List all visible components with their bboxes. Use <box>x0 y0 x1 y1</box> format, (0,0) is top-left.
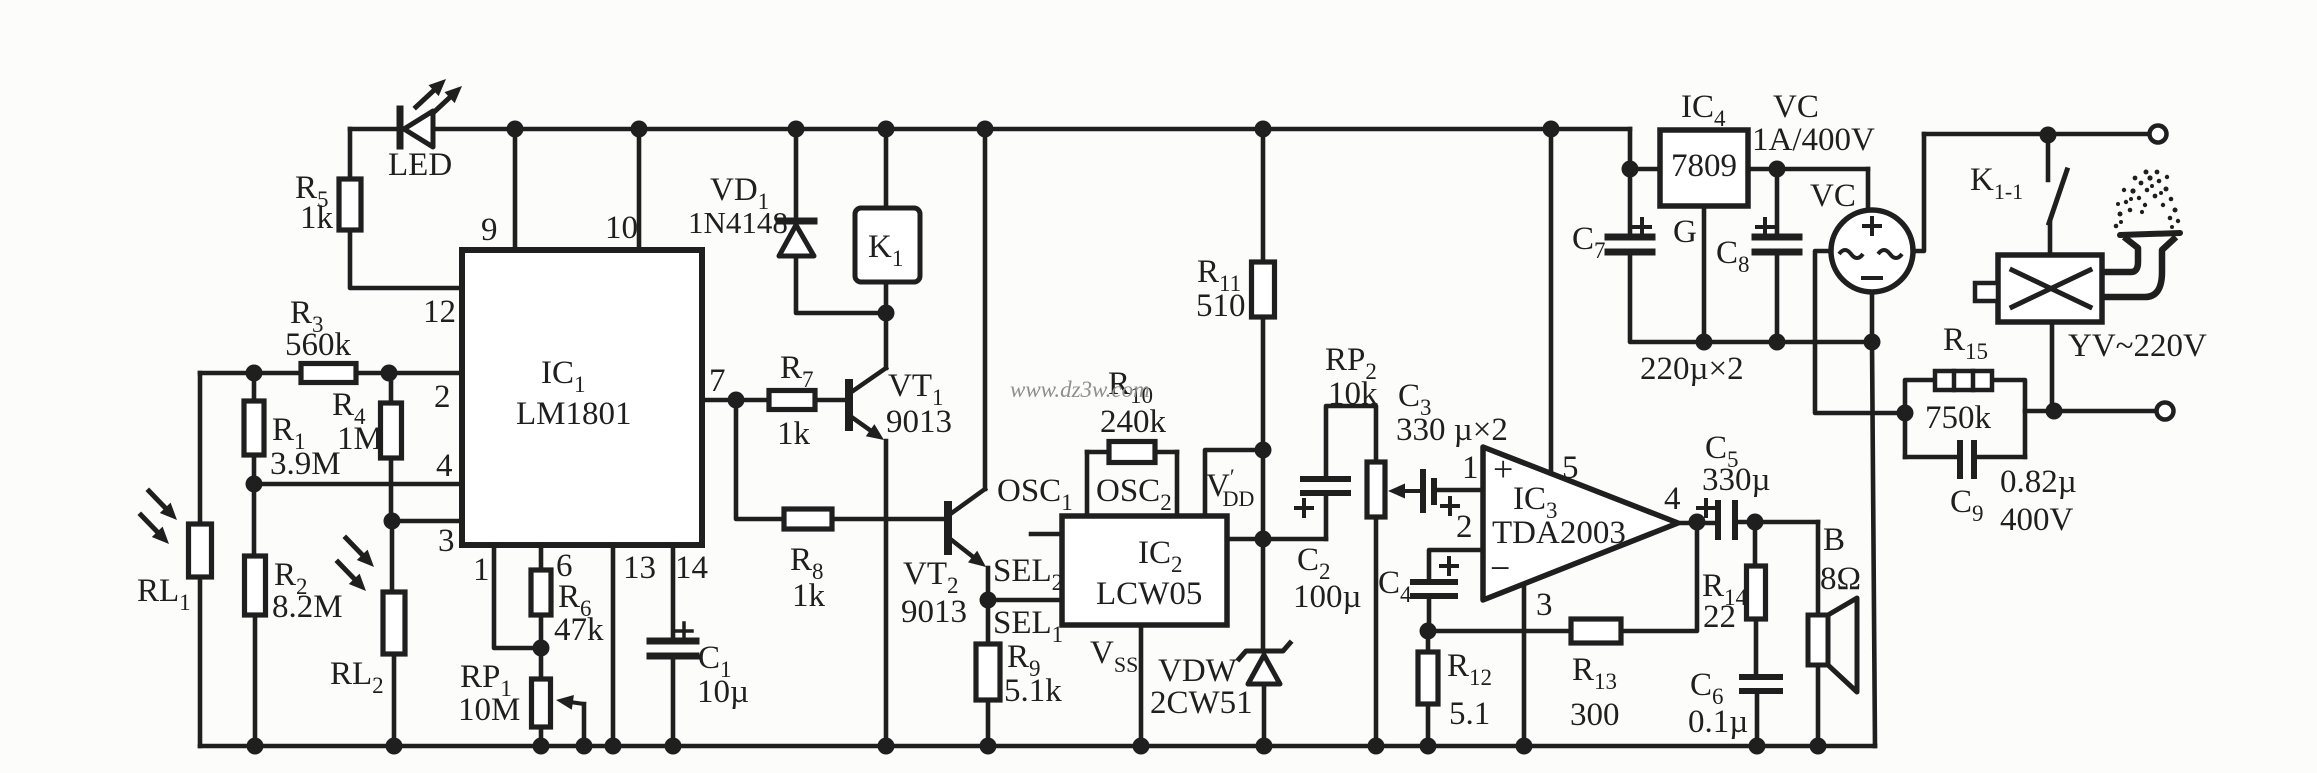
label B <box>1823 522 1845 558</box>
label R11 value 510 <box>1196 288 1246 324</box>
label SEL1 <box>993 605 1063 647</box>
svg-text:9013: 9013 <box>886 404 952 440</box>
terminal upper <box>2150 126 2167 143</box>
wire VC left <box>1815 251 1905 413</box>
wire C7 top <box>1628 169 1633 237</box>
svg-text:1A/400V: 1A/400V <box>1752 122 1875 158</box>
svg-text:LM1801: LM1801 <box>516 396 632 432</box>
node dot output <box>1689 514 1706 531</box>
wire R12 stubs <box>1426 631 1431 746</box>
label pin4 <box>1664 481 1681 517</box>
wire pin4 row <box>254 482 462 487</box>
wire VD1 to K1 node <box>796 256 886 313</box>
label RP1 value 10M <box>458 692 520 728</box>
label R8 value 1k <box>792 578 826 614</box>
wire rail to 7809 <box>1630 129 1660 169</box>
wire VC bottom <box>1870 292 1875 342</box>
node dot K1-1 tap <box>2040 127 2057 144</box>
svg-text:14: 14 <box>675 550 708 586</box>
wire pin13 <box>611 545 616 746</box>
resistor R14 <box>1747 566 1766 619</box>
op-amp IC3 triangle <box>1483 447 1678 600</box>
node dot R11 rail <box>1255 121 1272 138</box>
label VSS <box>1090 635 1138 677</box>
svg-text:47k: 47k <box>554 612 604 648</box>
label pin3 <box>1536 587 1553 623</box>
svg-text:10k: 10k <box>1328 376 1378 412</box>
svg-text:1: 1 <box>473 552 490 588</box>
wire C5 to speaker <box>1735 520 1818 525</box>
ic IC2 box <box>1062 516 1227 625</box>
svg-text:400V: 400V <box>2000 502 2074 538</box>
capacitor C4 plates <box>1413 582 1455 596</box>
label VDD <box>1206 464 1254 511</box>
wire RL2 stubs <box>392 521 394 746</box>
node dot VT2 rail <box>977 121 994 138</box>
wire pin2 row <box>200 371 462 376</box>
wire R8 to VT2 base <box>832 517 948 522</box>
label K1 <box>868 229 903 271</box>
label VT1 part 9013 <box>886 404 952 440</box>
node dot R12 rail <box>1420 738 1437 755</box>
label IC3 part TDA2003 <box>1492 515 1626 551</box>
wire R11 to VDW <box>1261 317 1266 649</box>
node dot pin7 junction <box>728 392 745 409</box>
transistor VT2 collector <box>949 129 985 515</box>
label C2 value 100u <box>1293 579 1362 615</box>
label OSC1 <box>997 473 1073 515</box>
LED emission arrow 2 <box>432 86 462 114</box>
svg-text:10: 10 <box>605 210 638 246</box>
resistor R12 <box>1418 652 1438 704</box>
node dot SEL1 junction <box>980 592 997 609</box>
label R1 <box>272 412 306 454</box>
resistor R5 <box>339 179 361 230</box>
wire RP2 bottom <box>1374 517 1379 746</box>
regulator IC4 7809 box <box>1660 130 1748 206</box>
node dot pin10 rail <box>631 121 648 138</box>
node dot R2 rail <box>247 738 264 755</box>
label C7 <box>1572 221 1606 263</box>
node dot R15 left <box>1897 405 1914 422</box>
wire K1 top <box>884 129 889 208</box>
wire VSS pin <box>1139 625 1144 746</box>
svg-text:5.1: 5.1 <box>1449 696 1490 732</box>
wire K1-1 lower <box>2048 223 2053 255</box>
svg-text:www.dz3w.com: www.dz3w.com <box>1010 377 1150 402</box>
label C5 <box>1705 430 1739 472</box>
wire pin14 <box>671 545 676 641</box>
photoresistor RL2 <box>383 592 405 654</box>
svg-text:8Ω: 8Ω <box>1820 561 1861 597</box>
wire output to VC top <box>1866 169 1871 210</box>
wire pin3 row <box>392 519 462 524</box>
wire VDW bottom <box>1262 684 1267 746</box>
label C2 <box>1297 542 1331 584</box>
label C8 <box>1716 235 1750 277</box>
transformer X mark <box>2012 270 2090 307</box>
label R6 <box>558 579 592 621</box>
capacitor C2 plates <box>1303 479 1348 493</box>
transistor VT1 emitter <box>850 416 886 746</box>
wire R15 to terminal <box>2025 409 2156 414</box>
wire C3 to pin1 <box>1437 488 1483 493</box>
label R2 value 8.2M <box>272 589 343 625</box>
node dot pin3 rail <box>1516 738 1533 755</box>
spout horn <box>2104 233 2180 297</box>
wire VD1 top <box>794 129 799 219</box>
label pin 9 <box>481 212 498 248</box>
svg-text:240k: 240k <box>1100 404 1167 440</box>
label pin 1 <box>473 552 490 588</box>
label C6 <box>1690 667 1724 709</box>
svg-text:22: 22 <box>1703 599 1736 635</box>
LED triangle <box>404 111 433 147</box>
wire OSC2 pin <box>1175 452 1180 516</box>
wire top supply rail <box>350 127 1630 132</box>
watermark <box>1010 377 1150 402</box>
label pin2 <box>1456 509 1473 545</box>
node dot VC ground <box>1864 334 1881 351</box>
wire pin10 <box>637 129 642 250</box>
resistor R8 <box>784 509 832 529</box>
label 750k <box>1925 400 1992 436</box>
svg-text:G: G <box>1673 214 1697 250</box>
zener VDW bar <box>1239 643 1290 659</box>
svg-text:8.2M: 8.2M <box>272 589 343 625</box>
label C4 <box>1378 565 1412 607</box>
rectifier VC circle <box>1831 210 1913 292</box>
label VD1 <box>710 172 769 214</box>
wire top-right mains segment <box>1924 132 2150 137</box>
capacitor C1 plates <box>650 641 696 656</box>
node dot pin4/R1 <box>246 476 263 493</box>
node dot pin13 rail <box>605 738 622 755</box>
node dot VD1 rail <box>788 121 805 138</box>
label R13 value 300 <box>1570 697 1620 733</box>
svg-text:1k: 1k <box>792 578 826 614</box>
node dot VT1 emitter rail <box>878 738 895 755</box>
transformer left tab <box>1975 283 1998 301</box>
label K1-1 <box>1970 162 2023 204</box>
node dot R1 top <box>246 365 263 382</box>
label 7809 <box>1671 148 1737 184</box>
wire left edge vertical <box>198 373 203 524</box>
label R12 <box>1447 648 1492 690</box>
wire output <box>1678 521 1718 526</box>
node dot pin3 junction <box>384 513 401 530</box>
wire ground row 220u <box>1704 340 1872 345</box>
wire R13 to output <box>1621 523 1697 631</box>
label VT2 <box>903 556 959 598</box>
svg-text:13: 13 <box>623 550 656 586</box>
svg-text:100µ: 100µ <box>1293 579 1362 615</box>
node dot R9 rail <box>980 738 997 755</box>
label C1 value 10u <box>697 674 749 710</box>
node dot RP1 rail <box>533 738 550 755</box>
label 0.82u <box>2000 464 2077 500</box>
wire G pin <box>1702 206 1707 342</box>
label R9 <box>1007 639 1041 681</box>
wire VDD pin <box>1205 450 1263 516</box>
svg-text:330µ: 330µ <box>1702 462 1771 498</box>
node dot wiper rail <box>576 738 593 755</box>
wire pin7 out <box>702 398 769 403</box>
svg-text:TDA2003: TDA2003 <box>1492 515 1626 551</box>
label IC2 part LCW05 <box>1096 576 1202 612</box>
wire speaker top <box>1816 522 1821 615</box>
C5 polarity + <box>1698 500 1714 516</box>
svg-text:9: 9 <box>481 212 498 248</box>
RP2 wiper arrow <box>1388 484 1412 499</box>
transistor VT2 emitter <box>949 538 988 600</box>
wire C7 bottom <box>1630 252 1704 342</box>
node dot VDD row <box>1255 531 1272 548</box>
wire VC right <box>1913 134 1924 251</box>
label VDW part 2CW51 <box>1150 685 1253 721</box>
svg-text:1k: 1k <box>777 416 811 452</box>
RL2 light arrow 2 <box>338 562 366 591</box>
svg-text:3: 3 <box>1536 587 1553 623</box>
wire OSC1 pin <box>1085 452 1090 516</box>
node dot K1 rail <box>878 121 895 138</box>
wire C1 bottom <box>671 656 676 746</box>
wire R10 row <box>1087 450 1177 455</box>
wire pin6 stub <box>539 545 544 570</box>
svg-text:7: 7 <box>709 363 726 399</box>
wire VDD supply row <box>1227 537 1326 542</box>
wire pin2 feed <box>1429 550 1483 582</box>
C3 polarity + <box>1442 498 1458 514</box>
wire C8 top <box>1775 169 1780 237</box>
wire bottom ground rail <box>200 744 1875 749</box>
wire C4 bottom <box>1427 596 1432 631</box>
label R14 value 22 <box>1703 599 1736 635</box>
wire R14 stubs <box>1755 522 1756 677</box>
node dot 7809 input <box>1622 161 1639 178</box>
RP1 wiper arrow <box>556 695 584 746</box>
svg-text:1: 1 <box>1462 450 1479 486</box>
label pin1 <box>1462 450 1479 486</box>
node dot VDW rail <box>1256 738 1273 755</box>
label R7 value 1k <box>777 416 811 452</box>
label C5 value 330u <box>1702 462 1771 498</box>
resistor R15 symbol <box>1935 371 1992 390</box>
resistor R10 <box>1109 442 1155 463</box>
label 1A/400V <box>1752 122 1875 158</box>
wire R1 stubs <box>252 373 257 484</box>
node dot RP2 rail <box>1368 738 1385 755</box>
label R4 <box>332 387 366 429</box>
wire pin3 <box>1522 584 1527 746</box>
capacitor C3 plates <box>1412 472 1434 510</box>
node dot RL2 rail <box>386 738 403 755</box>
wire pin1 <box>494 545 541 648</box>
svg-text:10µ: 10µ <box>697 674 749 710</box>
VC tilde right <box>1878 250 1902 258</box>
svg-text:9013: 9013 <box>901 594 967 630</box>
svg-text:B: B <box>1823 522 1845 558</box>
label R4 value 1M <box>337 421 383 457</box>
svg-text:7809: 7809 <box>1671 148 1737 184</box>
svg-text:VDW: VDW <box>1158 653 1238 689</box>
node dot feedback node <box>1420 623 1437 640</box>
svg-text:2: 2 <box>1456 509 1473 545</box>
svg-text:YV~220V: YV~220V <box>2068 328 2207 364</box>
label R7 <box>780 350 814 392</box>
potentiometer RP2 <box>1367 462 1385 517</box>
switch K1-1 blade <box>2049 170 2067 223</box>
svg-text:1N4148: 1N4148 <box>688 205 788 240</box>
svg-text:LCW05: LCW05 <box>1096 576 1202 612</box>
node dot VSS rail <box>1133 738 1150 755</box>
resistor R11 <box>1252 262 1275 317</box>
svg-text:560k: 560k <box>285 327 352 363</box>
label pin 10 <box>605 210 638 246</box>
photoresistor RL1 <box>189 524 212 577</box>
node dot R4 top <box>381 365 398 382</box>
capacitor C7 plates <box>1608 237 1652 252</box>
node dot pin9 rail <box>507 121 524 138</box>
svg-text:330 µ×2: 330 µ×2 <box>1396 412 1508 448</box>
wire R7 to VT1 base <box>815 398 849 403</box>
label R8 <box>790 542 824 584</box>
label VT1 <box>888 368 944 410</box>
label R13 <box>1572 652 1617 694</box>
label R12 value 5.1 <box>1449 696 1490 732</box>
label pin 7 <box>709 363 726 399</box>
label R10 value 240k <box>1100 404 1167 440</box>
label IC3 <box>1513 481 1558 523</box>
label IC4 <box>1681 89 1726 131</box>
terminal lower <box>2157 403 2174 420</box>
label R14 <box>1702 568 1748 610</box>
wire RL1 to ground rail <box>198 577 203 746</box>
potentiometer RP1 <box>532 679 551 727</box>
svg-text:220µ×2: 220µ×2 <box>1640 351 1744 387</box>
resistor R2 <box>245 556 266 615</box>
C7 polarity + <box>1634 219 1650 235</box>
svg-text:510: 510 <box>1196 288 1246 324</box>
label pin 2 <box>434 379 451 415</box>
label pin5 <box>1562 450 1579 486</box>
svg-text:VC: VC <box>1773 89 1819 125</box>
resistor R7 <box>769 391 815 410</box>
wire K1 bottom <box>884 282 889 313</box>
label R9 value 5.1k <box>1004 673 1062 709</box>
wire R5 top corner <box>348 129 353 179</box>
RL1 light arrow 1 <box>149 491 177 520</box>
label RL1 <box>137 573 191 615</box>
label C3 <box>1398 378 1432 420</box>
svg-text:5.1k: 5.1k <box>1004 673 1062 709</box>
label IC2 <box>1138 535 1183 577</box>
svg-text:LED: LED <box>388 147 452 183</box>
wire RP1 to rail <box>539 727 544 746</box>
wire YV bottom <box>2050 322 2055 411</box>
resistor R6 <box>531 570 551 615</box>
diode VD1 triangle <box>779 225 814 256</box>
label pin 14 <box>675 550 708 586</box>
label IC1 <box>541 355 586 397</box>
label SEL2 <box>993 553 1063 595</box>
VC minus <box>1863 276 1881 280</box>
wire R9 stubs <box>986 600 991 746</box>
wire R8 feed <box>736 400 784 519</box>
svg-text:3.9M: 3.9M <box>270 446 341 482</box>
label G <box>1673 214 1697 250</box>
label C1 <box>698 640 732 682</box>
wire R11 top <box>1261 129 1266 262</box>
node dot C5/R14 <box>1747 514 1764 531</box>
svg-text:+: + <box>1493 449 1513 489</box>
resistor R1 <box>244 401 264 455</box>
svg-text:VC: VC <box>1810 178 1856 214</box>
op-amp IC1 box <box>462 250 702 545</box>
label C3 value 330ux2 <box>1396 412 1508 448</box>
label VD1 part 1N4148 <box>688 205 788 240</box>
label pin 4 <box>436 448 453 484</box>
label RP2 <box>1325 342 1377 384</box>
svg-text:1M: 1M <box>337 421 383 457</box>
C2 polarity + <box>1296 500 1312 516</box>
label OSC2 <box>1096 473 1172 515</box>
transistor VT1 base bar <box>845 383 853 427</box>
LED emission arrow 1 <box>416 79 446 107</box>
svg-text:4: 4 <box>1664 481 1681 517</box>
node dot G ground <box>1696 334 1713 351</box>
transformer YV box <box>1998 255 2102 322</box>
transistor VT2 base bar <box>944 505 952 551</box>
transistor VT1 collector <box>850 313 886 393</box>
svg-text:2: 2 <box>434 379 451 415</box>
label VDW <box>1158 653 1238 689</box>
label R6 value 47k <box>554 612 604 648</box>
capacitor C6 plates <box>1742 677 1780 691</box>
label LED <box>388 147 452 183</box>
svg-text:1k: 1k <box>300 200 334 236</box>
label YV~220V <box>2068 328 2207 364</box>
wire R6 bottom <box>539 615 544 679</box>
label IC1 part LM1801 <box>516 396 632 432</box>
wire SEL2 stub <box>1031 532 1062 537</box>
svg-text:4: 4 <box>436 448 453 484</box>
svg-text:0.1µ: 0.1µ <box>1688 704 1748 740</box>
label R3 <box>290 295 324 337</box>
node dot pin5 rail <box>1543 121 1560 138</box>
wire pin9 <box>513 129 518 250</box>
svg-text:12: 12 <box>423 294 456 330</box>
label 400V <box>2000 502 2074 538</box>
label R3 value 560k <box>285 327 352 363</box>
label R10 <box>1108 366 1153 408</box>
C8 polarity + <box>1757 219 1773 235</box>
node dot C8 top <box>1769 161 1786 178</box>
LED cathode bar <box>397 109 404 146</box>
node dot R6/RP1 <box>533 640 550 657</box>
wire feedback row <box>1428 629 1571 634</box>
svg-text:2CW51: 2CW51 <box>1150 685 1253 721</box>
wire C6 bottom <box>1755 691 1760 746</box>
wire pin5 <box>1549 129 1554 473</box>
label RL2 <box>330 656 384 698</box>
label pin 13 <box>623 550 656 586</box>
diode VD1 cathode bar <box>779 218 814 225</box>
label VC right of IC4 <box>1773 89 1819 125</box>
label R2 <box>274 557 308 599</box>
label VT2 part 9013 <box>901 594 967 630</box>
label R5 <box>295 170 329 212</box>
